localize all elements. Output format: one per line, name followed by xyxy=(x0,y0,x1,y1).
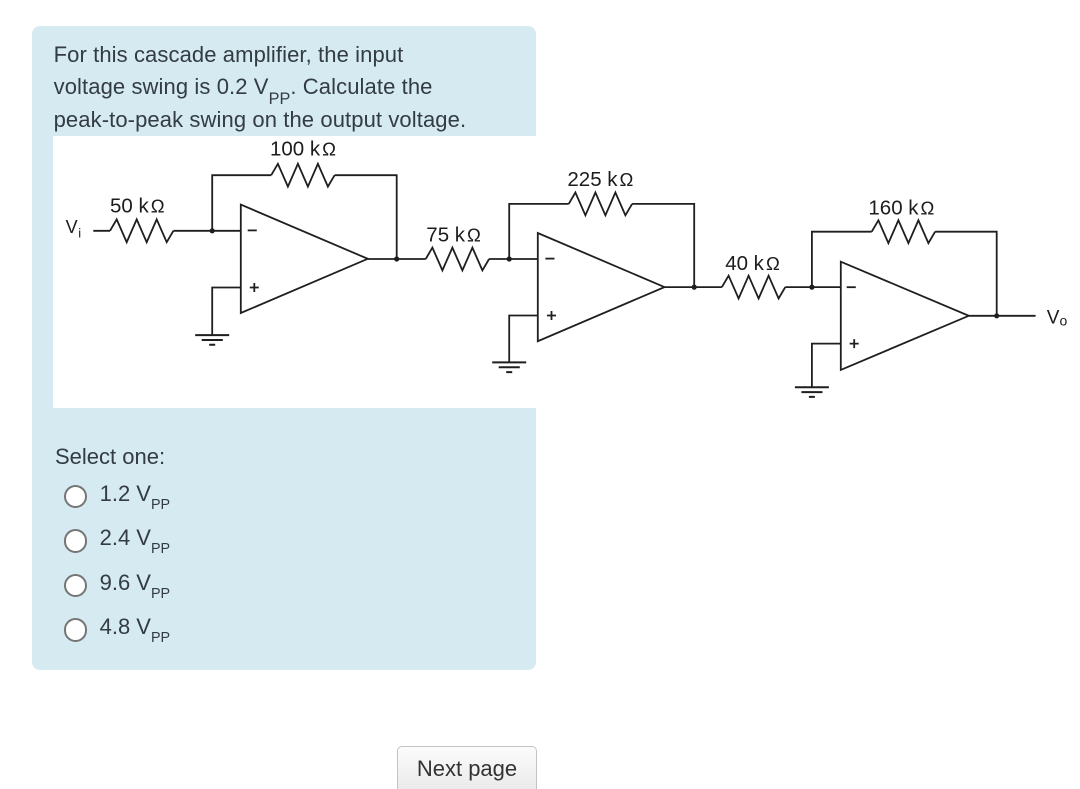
wire feedback left vertical U3 xyxy=(812,232,872,287)
label Vi xyxy=(66,217,82,241)
wire feedback left vertical U2 xyxy=(509,204,569,259)
wire Vi to R1 xyxy=(93,230,110,232)
resistor R3 75k xyxy=(426,248,489,271)
wire R1 to op-amp U1 inverting input xyxy=(173,230,240,232)
svg-text:225 kΩ: 225 kΩ xyxy=(567,168,633,191)
svg-text:50 kΩ: 50 kΩ xyxy=(110,195,165,218)
resistor R4 225k feedback xyxy=(569,193,632,216)
svg-text:75 kΩ: 75 kΩ xyxy=(426,224,481,247)
wire feedback left vertical U1 xyxy=(212,175,271,231)
radio option 1 xyxy=(64,485,88,509)
label Vo xyxy=(1047,307,1068,328)
op-amp U2 xyxy=(538,233,665,341)
node C (U2 inverting input) xyxy=(507,256,512,261)
radio option 4 xyxy=(64,618,88,642)
question text xyxy=(54,39,534,136)
wire feedback right vertical U2 xyxy=(632,204,694,287)
svg-text:40 kΩ: 40 kΩ xyxy=(725,252,780,275)
resistor R2 100k feedback xyxy=(271,164,334,187)
op-amp U3 xyxy=(841,262,969,370)
svg-text:i: i xyxy=(78,226,81,241)
U3 minus sign xyxy=(847,286,856,288)
U1 plus sign xyxy=(250,283,259,292)
resistor R1 50k xyxy=(110,219,173,242)
wire U3 noninverting input to ground xyxy=(812,344,841,388)
resistor R6 160k feedback xyxy=(872,220,935,243)
wire U1 output xyxy=(368,258,426,260)
node E (U3 inverting input) xyxy=(809,285,814,290)
U3 plus sign xyxy=(850,339,859,348)
wire R5 to op-amp U3 inverting input xyxy=(785,286,841,288)
Next page button xyxy=(397,746,537,789)
question blue box xyxy=(32,26,536,670)
wire feedback right vertical U3 xyxy=(935,232,997,316)
op-amp U1 xyxy=(241,205,368,313)
node B (U1 output) xyxy=(394,256,399,261)
svg-text:V: V xyxy=(66,217,78,237)
wire R3 to op-amp U2 inverting input xyxy=(489,258,538,260)
wire feedback right vertical U1 xyxy=(335,175,397,259)
node A (U1 inverting input) xyxy=(210,228,215,233)
U2 minus sign xyxy=(545,258,554,260)
radio option 2 xyxy=(64,529,88,553)
wire U3 output to Vo xyxy=(969,315,1036,317)
Select one: xyxy=(55,444,165,470)
ground G3 xyxy=(795,387,829,397)
ground G2 xyxy=(492,362,526,372)
radio option 3 xyxy=(64,574,88,598)
wire U2 output xyxy=(665,286,722,288)
U1 minus sign xyxy=(248,229,257,231)
wire U2 noninverting input to ground xyxy=(509,316,538,363)
circuit schematic SVG xyxy=(52,130,1080,408)
svg-text:V: V xyxy=(1047,307,1060,328)
node D (U2 output) xyxy=(692,285,697,290)
wire U1 noninverting input to ground xyxy=(212,288,241,336)
svg-text:160 kΩ: 160 kΩ xyxy=(868,197,934,220)
white circuit panel xyxy=(53,136,1080,408)
U2 plus sign xyxy=(547,311,556,320)
resistor R5 40k xyxy=(722,276,785,299)
svg-text:o: o xyxy=(1060,313,1068,329)
svg-text:100 kΩ: 100 kΩ xyxy=(270,138,336,161)
ground G1 xyxy=(195,335,229,345)
node F (U3 output) xyxy=(994,313,999,318)
